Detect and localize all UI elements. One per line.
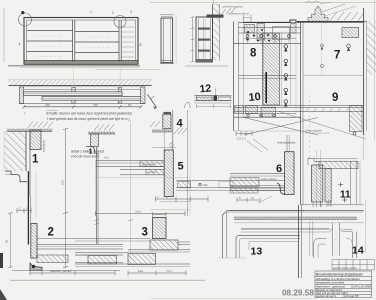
bottom line of detail 11	[301, 204, 364, 206]
right paper edge line	[374, 0, 376, 140]
svg-text:4: 4	[19, 42, 21, 46]
svg-text:2: 2	[112, 11, 114, 15]
hatched block below ceiling right	[342, 28, 359, 38]
vertical hatched strip detail 6	[285, 152, 294, 195]
svg-text:2,5 2 5: 2,5 2 5	[237, 137, 246, 141]
screw right	[347, 44, 351, 50]
shelf band A detail 3	[37, 238, 150, 240]
screws below mid shelf	[247, 114, 276, 117]
svg-text:56: 56	[5, 239, 9, 243]
top edge squiggle mark	[305, 1, 332, 4]
top paper edge line	[150, 2, 376, 4]
shelf lines left bay	[27, 31, 73, 52]
right wall faint continuation	[363, 135, 365, 160]
svg-text:onderkant plafond: onderkant plafond	[222, 5, 243, 9]
svg-text:gezien de arch.: gezien de arch.	[316, 294, 337, 298]
sliding door strip upper	[24, 92, 123, 96]
svg-text:10a: 10a	[104, 156, 109, 160]
right border verticals bottom	[365, 200, 367, 252]
panel edge line x296	[295, 22, 297, 117]
corner 13 outer verticals	[222, 215, 224, 259]
svg-text:150: 150	[93, 103, 98, 107]
ceiling line	[295, 21, 367, 23]
dim tick above detail 3	[153, 214, 167, 216]
svg-text:gezien ontwerp gez: gezien ontwerp gezien	[333, 267, 358, 270]
svg-text:6: 6	[276, 163, 282, 175]
corner 13 inner line	[249, 241, 298, 243]
top assembly lines	[239, 21, 299, 23]
hatched posts detail 11	[312, 165, 323, 202]
svg-text:3: 3	[130, 10, 132, 14]
vertical hatched block detail 3	[153, 218, 167, 239]
svg-text:7cm: 7cm	[166, 269, 172, 273]
ticks above left	[243, 15, 245, 22]
left edge dark strip	[0, 253, 3, 268]
middle hatched vertical strip	[263, 33, 280, 105]
filler block detail 4	[163, 114, 171, 129]
faint ground shadow line right	[95, 69, 161, 71]
plan bottom line	[19, 103, 145, 105]
stub verticals top of 13/14 band	[316, 200, 318, 207]
svg-text:60: 60	[128, 103, 132, 107]
handwritten note under plan	[46, 112, 132, 121]
middle filler block	[91, 134, 99, 147]
svg-text:Bouwonderneming Zuigebouwd: Bouwonderneming Zuigebouwd	[316, 272, 363, 276]
detail 1 text note	[71, 149, 105, 158]
wall hatch band above plan	[9, 80, 152, 86]
shelf lines middle bay	[75, 32, 119, 53]
box of vertical section	[196, 17, 213, 62]
middle cornice profile	[86, 147, 99, 154]
svg-text:4: 4	[177, 118, 184, 130]
small grid table	[332, 260, 375, 270]
projection line from elevation to plan A	[73, 68, 75, 86]
dim marks below detail 5	[156, 197, 209, 202]
base dark	[197, 59, 213, 62]
left vertical dim detail 2	[10, 213, 12, 268]
left double vertical	[233, 22, 235, 132]
dim line bottom detail 2	[30, 271, 115, 276]
vertical hatched strip detail 5	[164, 150, 173, 197]
svg-text:voor de muur komt: voor de muur komt	[71, 155, 100, 159]
elevation right stile	[118, 20, 120, 62]
dims below detail 6	[237, 198, 260, 203]
detail 12 assembly	[194, 95, 232, 97]
projection line from elevation to plan B	[119, 68, 121, 86]
svg-text:regelafst. gemaln: regelafst. gemaln	[50, 269, 72, 273]
main title block	[315, 271, 372, 298]
boards lower detail 5	[120, 168, 164, 170]
tiny marks above elevation	[90, 10, 132, 15]
svg-text:11: 11	[340, 190, 351, 201]
svg-text:12: 12	[251, 196, 255, 200]
svg-text:10: 10	[248, 91, 261, 104]
svg-text:8: 8	[250, 48, 257, 60]
detail 11 bottom ticks	[313, 202, 331, 207]
right cornice profile dark	[308, 6, 328, 21]
post lines detail 4/5	[172, 110, 174, 150]
dim ticks under detail 12	[197, 105, 231, 109]
screw marks in panel 7	[321, 44, 324, 68]
dim line left of section	[191, 17, 193, 62]
roof hatch top right of section	[221, 7, 236, 15]
ceiling hatch cluster middle	[94, 125, 114, 131]
faint line from block down	[35, 171, 37, 218]
plinth profile detail 2	[30, 263, 42, 271]
wall post detail 1	[25, 131, 27, 171]
svg-text:9: 9	[332, 92, 338, 104]
svg-text:7: 7	[90, 11, 92, 15]
long ground line bottom	[10, 279, 205, 281]
plan middle post A	[72, 87, 75, 103]
detail 14 left outer verticals	[309, 221, 311, 256]
svg-text:veilig sluitstel: veilig sluitstel	[261, 177, 277, 181]
svg-text:Schuifd. deuren van halve deur: Schuifd. deuren van halve deur regelrond…	[46, 112, 132, 116]
corner 13 chamfer	[223, 210, 228, 215]
plan left end post	[19, 87, 23, 104]
plan middle post B	[118, 87, 121, 103]
corner 13 middle frame	[236, 235, 300, 258]
boards left detail 6	[230, 173, 285, 175]
ground line under elevation	[8, 65, 140, 67]
dim line bottom detail 3	[128, 271, 186, 276]
svg-text:14: 14	[352, 245, 364, 257]
screws column	[284, 45, 288, 106]
top cap dark	[207, 15, 224, 18]
svg-text:onderkant plafond: onderkant plafond	[228, 12, 249, 16]
detail 14 right frame	[346, 239, 352, 259]
ceiling hatch cluster detail 4	[150, 121, 187, 134]
shelf lines right bay	[121, 27, 134, 57]
svg-text:5: 5	[178, 161, 184, 173]
dimension line bottom detail 5	[96, 213, 186, 215]
top hatched blocks	[244, 20, 297, 22]
svg-text:14 aug 58: 14 aug 58	[345, 294, 359, 298]
svg-text:7: 7	[334, 50, 340, 62]
diagonals below mid shelf	[244, 118, 318, 136]
verticals right of detail 11	[350, 161, 352, 204]
top dim ticks detail 2	[17, 208, 31, 213]
top edge tick	[213, 0, 215, 5]
cross marks detail 11	[339, 182, 348, 202]
left paper edge line	[3, 8, 5, 62]
long verticals between 13 and 14	[298, 205, 300, 278]
profile steps detail 6	[277, 183, 285, 194]
svg-text:onderlegplankje: onderlegplankje	[277, 141, 296, 145]
mid shelf line of section 8/10	[239, 75, 296, 77]
vertical dimension line x65	[65, 129, 67, 268]
detail 11 top edge lines	[308, 157, 358, 159]
svg-text:8: 8	[140, 43, 142, 47]
shelves dark	[198, 28, 210, 30]
ceiling hatch right	[330, 12, 364, 21]
right wall hatch	[367, 22, 376, 75]
top cap detail 4	[164, 112, 172, 114]
dim marks bottom-left of big section	[236, 131, 252, 136]
svg-text:150: 150	[61, 180, 65, 185]
bottom-left dark corner	[0, 289, 7, 300]
connecting boards detail 5 to 6	[176, 180, 285, 182]
elevation outer frame	[24, 18, 138, 65]
top hatch strip detail 11	[319, 161, 358, 168]
ground line below section	[185, 65, 228, 67]
hatch block lower right	[353, 132, 356, 135]
svg-text:2: 2	[48, 227, 54, 239]
middle post detail 14	[330, 223, 343, 232]
top screws	[246, 35, 290, 38]
svg-text:3: 3	[142, 227, 148, 239]
hatched strip detail 2	[37, 255, 68, 263]
section arrow right of plan	[148, 95, 157, 108]
floor line detail 2	[12, 269, 120, 271]
cornice profile detail 1	[5, 171, 27, 182]
knurl band	[234, 217, 357, 220]
svg-text:achterk.: achterk.	[148, 170, 158, 174]
shelf band B detail 3	[75, 252, 128, 254]
svg-text:12: 12	[199, 82, 212, 95]
sliding door strip lower	[42, 96, 141, 100]
side view top cap	[160, 14, 174, 16]
elevation middle stile	[72, 20, 74, 62]
main verticals right section	[300, 22, 302, 205]
svg-text:stofdorpel: stofdorpel	[42, 140, 46, 153]
plan back line	[24, 88, 141, 90]
vertical dim middle	[130, 120, 132, 258]
horizontals detail 14	[241, 229, 330, 231]
hatched post detail 2	[31, 224, 37, 259]
detail 14 left frame with arc	[314, 239, 326, 259]
svg-text:veilig-sluitstel: veilig-sluitstel	[305, 129, 322, 133]
svg-text:1: 1	[89, 147, 93, 156]
svg-text:104.118.1958: 104.118.1958	[353, 285, 371, 289]
svg-text:7cm: 7cm	[135, 209, 141, 213]
wall hatch detail 1	[4, 131, 26, 171]
fade line bottom 13	[219, 257, 246, 259]
wall line	[9, 85, 152, 87]
small step marks	[169, 142, 174, 147]
faint wall line right of side view	[175, 14, 177, 64]
svg-text:08.29.58: 08.29.58	[282, 289, 314, 298]
svg-text:binnenkant: binnenkant	[142, 163, 155, 167]
faint bottom paper line	[150, 297, 316, 299]
faint horizontal mid right	[303, 74, 364, 76]
plan dimension line	[23, 105, 143, 108]
svg-text:150: 150	[45, 103, 50, 107]
svg-text:t heel geheel aan de muur gehe: t heel geheel aan de muur gehecht (doet …	[47, 117, 130, 121]
detail circle near right stile	[114, 16, 126, 28]
leader diagonals toward detail 6	[247, 141, 262, 152]
plan right end post	[141, 87, 145, 104]
boards top detail 2	[37, 244, 123, 246]
dark dot above circle	[21, 11, 24, 14]
tick marks on projection verticals	[95, 220, 133, 225]
detail circle top-left of elevation	[19, 13, 32, 26]
faint long line under boards	[96, 177, 188, 179]
top filler block detail 1	[30, 130, 41, 150]
shelf line above detail 5	[152, 147, 176, 149]
mid shelf assembly	[244, 105, 364, 107]
svg-text:14a: 14a	[138, 269, 143, 273]
left faint vertical for boards	[95, 160, 97, 214]
graphite dark line	[265, 72, 267, 103]
ceiling dash band detail 1	[7, 129, 53, 132]
side view base	[161, 60, 173, 62]
ceiling hatch cluster detail 1	[28, 122, 53, 128]
middle post line down	[96, 147, 98, 245]
svg-text:1: 1	[32, 154, 39, 166]
side view body	[161, 18, 173, 63]
right border line of middle details	[187, 110, 189, 216]
right wall line	[363, 8, 365, 135]
svg-text:10a: 10a	[203, 183, 208, 187]
sparse hatch ticks along thin strip	[306, 108, 349, 111]
post continues down to detail 2	[27, 171, 29, 244]
wall strip	[213, 4, 220, 61]
boards upper detail 5	[96, 160, 165, 162]
dash band detail 4	[152, 130, 172, 132]
svg-text:13: 13	[251, 246, 263, 258]
elevation plinth	[25, 60, 138, 64]
plan top line	[19, 86, 145, 88]
vertical pair above detail 6 strip	[286, 135, 288, 152]
top lines band	[227, 209, 364, 211]
